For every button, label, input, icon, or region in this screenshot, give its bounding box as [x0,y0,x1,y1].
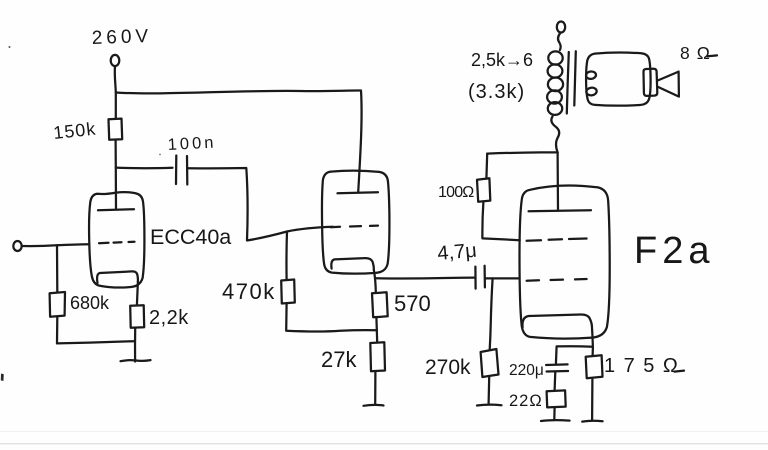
svg-text:260V: 260V [91,26,152,49]
speck mid left [159,154,161,156]
resistor 27k [370,342,385,371]
wire screen feed rail [487,152,557,153]
resistor 270k [481,349,499,377]
svg-text:270k: 270k [425,356,471,379]
wire top rail from 260V node to tube V2 plate [116,90,362,192]
tube V1 ECC40a envelope [89,192,144,287]
label 175R omega tail [675,371,685,372]
node transformer top terminal [557,22,565,33]
resistor 150k [109,119,123,140]
wire 220u to 22R [553,372,556,391]
wire junction to coupling cap 100n [116,166,173,169]
svg-text:F2a: F2a [634,230,714,272]
tube V3 plate bar [529,210,591,211]
tube V2 envelope [322,171,389,274]
svg-text:4,7μ: 4,7μ [437,240,478,265]
svg-text:8Ω: 8Ω [680,43,717,63]
wire 27k to ground [374,371,376,404]
wire junction left to 220u [556,346,593,364]
wire V1 cathode to 2,2k [137,281,138,305]
scan artifact line bottom [0,443,768,444]
wire input junction down to 680k [56,245,59,292]
svg-text:(3.3k): (3.3k) [468,81,525,103]
speaker body [586,53,651,106]
wire V3 cathode down to junction [592,326,593,348]
wire 22R to ground [553,407,556,419]
tube V3 cathode [522,314,591,327]
capacitor 220u [546,363,568,366]
svg-text:680k: 680k [70,293,110,313]
wire 47u to grid of F2a [485,277,518,279]
resistor 470k [281,280,295,304]
resistor 175R [586,355,603,378]
resistor 680k [50,292,65,317]
resistor 22R [547,390,566,407]
ground 27k [364,404,384,407]
wire terminal to primary [558,33,561,50]
speck top left [9,46,11,48]
svg-text:100Ω: 100Ω [438,184,474,201]
wire 470k to 27k junction [286,304,377,332]
tube V3 control grid dashes [527,279,587,281]
wire 150k to tube V1 plate [114,140,117,210]
wire 175R to ground [591,378,594,420]
wire V2 cathode down to 570 [374,270,376,292]
resistor 100R [477,178,490,202]
transformer core [567,52,569,114]
wire 2,2k to ground [134,328,136,362]
wire 100R to screen grid [482,202,519,240]
tube V1 plate bar [98,209,134,210]
wire grid junction down to 270k [490,278,493,349]
svg-text:220μ: 220μ [509,362,544,379]
wire V2 grid-leak junction down to 470k [285,232,288,280]
tube V2 cathode [331,258,374,270]
svg-text:2,2k: 2,2k [149,307,189,329]
tube V2 plate bar [338,192,379,193]
svg-text:100n: 100n [167,133,217,154]
ground 270k [477,403,502,406]
svg-text:22Ω: 22Ω [509,392,543,410]
label 8R omega tail [707,54,717,57]
speaker driver [643,69,657,96]
svg-text:2,5k→6: 2,5k→6 [471,50,533,70]
wire primary bottom tail [551,117,559,153]
svg-text:570: 570 [394,291,431,316]
svg-text:470k: 470k [222,279,276,304]
wire bottom rail to cathode leg [57,341,134,343]
ground V1 cathode [121,360,151,361]
wire junction down to 175R [591,347,594,356]
node input terminal [13,241,21,251]
wire 270k to ground [487,377,490,404]
scan mark left edge [1,374,4,382]
wire V2 cathode junction to 47u cap [377,276,475,279]
transformer secondary winding [586,71,597,80]
wire 570 to 27k [375,317,378,342]
transformer primary winding [548,51,562,64]
svg-text:27k: 27k [321,347,357,372]
node 260V supply terminal [111,55,120,66]
capacitor 100n [175,156,178,185]
tube V1 grid dashes [99,242,135,244]
svg-text:175Ω: 175Ω [604,355,686,377]
ground 175R [582,420,602,423]
wire down to 100R [485,154,488,179]
resistor 570 [372,292,388,317]
wire transformer primary to V3 plate [556,152,559,210]
capacitor 47u [474,267,476,289]
tube V3 F2a envelope [519,185,609,338]
tube V3 screen grid dashes [527,239,587,241]
tube V1 cathode [97,271,138,283]
wire from 260V terminal down to 150k resistor [115,66,116,118]
svg-text:ECC40a: ECC40a [150,225,231,249]
wire 680k to ground rail [56,317,59,344]
ground 22R [541,419,570,422]
resistor 2,2k [130,305,144,328]
tube V2 grid dashes [331,226,379,228]
wire 100n to grid of tube V2 [188,168,334,241]
wire input to grid of V1 [22,244,90,246]
speaker horn [657,72,679,97]
